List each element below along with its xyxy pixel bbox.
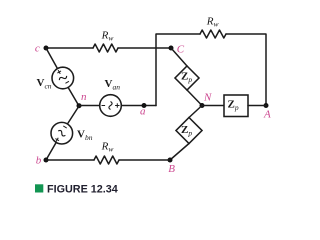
node N: [200, 103, 205, 108]
wire Rw to B: [119, 159, 170, 161]
source Vbn: [51, 122, 73, 144]
svg-text:b: b: [36, 154, 42, 166]
node b: [44, 158, 49, 163]
wire Zp diamond to B: [170, 144, 189, 161]
node a: [142, 103, 147, 108]
svg-text:c: c: [35, 42, 40, 54]
svg-text:a: a: [140, 105, 146, 117]
source Van: [100, 95, 122, 117]
wire n to Vbn: [67, 106, 79, 124]
node A: [264, 103, 269, 108]
wire Rw to A: [226, 34, 266, 106]
wire N to Zp box: [202, 105, 224, 107]
wire c to Vcn: [46, 48, 58, 69]
resistor Rw (line a-A): [200, 30, 226, 38]
node n: [77, 103, 82, 108]
wire a up to top: [156, 34, 200, 106]
wire Zp diamond to N: [187, 90, 202, 106]
resistor Rw (line b-B): [94, 156, 119, 164]
load Zp (phase C diamond): [175, 66, 199, 90]
figure caption bullet: [35, 184, 43, 192]
node c: [44, 46, 49, 51]
wire b to Rw: [46, 159, 94, 161]
resistor Rw (line c-C): [93, 44, 118, 52]
svg-text:B: B: [168, 163, 175, 175]
svg-text:A: A: [263, 108, 271, 120]
wire Rw to node C: [118, 47, 171, 49]
wire Van to node a: [121, 105, 156, 107]
source Vcn: [52, 67, 74, 89]
wire n to Van: [79, 105, 100, 107]
svg-text:N: N: [203, 91, 212, 103]
wire Zp box to A: [248, 105, 266, 107]
wire Vcn to node n: [68, 87, 79, 106]
node B: [168, 158, 173, 163]
wire N to Zp diamond (phase B): [189, 106, 202, 118]
wire Vbn to node b: [46, 142, 56, 160]
load Zp (phase A box): [224, 95, 248, 117]
svg-text:FIGURE 12.34: FIGURE 12.34: [47, 184, 118, 196]
node C: [169, 46, 174, 51]
wire c to Rw: [46, 47, 93, 49]
wire C to Zp diamond: [171, 48, 187, 66]
svg-text:n: n: [81, 91, 87, 103]
svg-text:C: C: [177, 43, 185, 55]
load Zp (phase B diamond): [176, 118, 202, 144]
